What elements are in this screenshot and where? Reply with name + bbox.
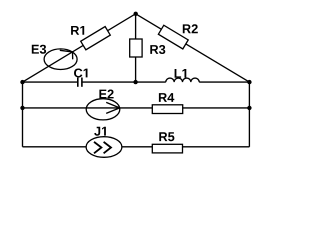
E2 arrow <box>106 102 120 113</box>
junction apex node <box>134 12 138 16</box>
label L1 <box>175 69 187 78</box>
current source J1 body <box>86 137 122 158</box>
junction node left row2 <box>20 106 24 110</box>
inductor L1 coil <box>166 78 199 82</box>
resistor R1 body <box>81 27 111 50</box>
capacitor C1 plates <box>78 78 82 87</box>
wire row1 middle segment <box>82 81 165 83</box>
wire right vertical <box>248 82 250 147</box>
label E2 <box>99 90 113 99</box>
E3 arrow <box>60 50 73 59</box>
wire right diagonal apex to node3 <box>136 14 250 82</box>
label C1 <box>74 69 88 78</box>
label R4 <box>159 93 174 102</box>
resistor R5 body <box>152 144 182 153</box>
junction node right row2 <box>247 106 251 110</box>
resistor R2 body <box>158 25 188 49</box>
wire row1 right segment <box>199 81 249 83</box>
label E3 <box>32 45 46 54</box>
junction node right row1 <box>247 80 251 84</box>
label R3 <box>150 45 165 54</box>
label R5 <box>159 132 174 141</box>
label J1 <box>94 127 106 136</box>
wire row3 <box>23 146 250 148</box>
wire left vertical <box>22 82 24 147</box>
wire row1 left segment <box>23 81 78 83</box>
wire left diagonal node1 to apex <box>23 14 136 82</box>
label R2 <box>183 24 198 33</box>
label R1 <box>71 26 84 35</box>
EMF source E3 body <box>44 49 77 70</box>
wire center vertical apex to node2 <box>135 14 137 82</box>
junction node left row1 <box>20 80 24 84</box>
wire row2 <box>23 107 250 109</box>
EMF source E2 body <box>86 99 120 120</box>
resistor R4 body <box>152 105 182 114</box>
resistor R3 body <box>130 39 142 57</box>
junction node center row1 <box>133 80 137 84</box>
